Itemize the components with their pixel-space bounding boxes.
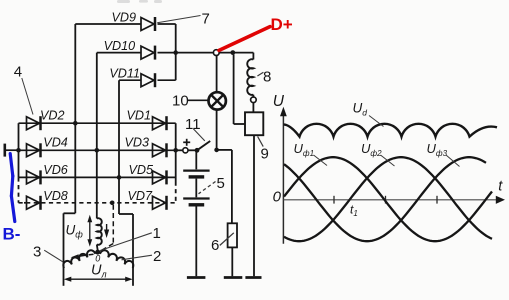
- svg-text:VD9: VD9: [112, 11, 137, 25]
- svg-text:6: 6: [211, 237, 219, 254]
- svg-text:VD5: VD5: [129, 163, 154, 177]
- svg-text:5: 5: [217, 175, 225, 192]
- svg-text:D+: D+: [271, 15, 293, 34]
- svg-text:7: 7: [202, 11, 210, 28]
- svg-text:VD2: VD2: [40, 109, 65, 123]
- svg-text:2: 2: [153, 248, 161, 265]
- svg-text:VD10: VD10: [104, 39, 136, 53]
- svg-text:1: 1: [153, 225, 161, 242]
- svg-text:9: 9: [261, 146, 269, 163]
- svg-text:VD4: VD4: [43, 136, 68, 150]
- svg-text:0: 0: [95, 254, 100, 264]
- svg-text:3: 3: [33, 244, 41, 261]
- svg-text:8: 8: [263, 69, 271, 86]
- svg-text:U: U: [273, 93, 285, 110]
- svg-text:VD1: VD1: [127, 109, 152, 123]
- svg-text:10: 10: [172, 93, 189, 110]
- svg-text:VD8: VD8: [43, 189, 68, 203]
- svg-text:11: 11: [185, 116, 201, 133]
- svg-text:0: 0: [273, 188, 282, 205]
- svg-text:VD11: VD11: [109, 67, 140, 81]
- svg-text:VD6: VD6: [43, 163, 68, 177]
- svg-text:4: 4: [14, 64, 22, 81]
- svg-text:B-: B-: [3, 225, 21, 244]
- svg-text:VD7: VD7: [128, 189, 153, 203]
- svg-text:VD3: VD3: [125, 136, 150, 150]
